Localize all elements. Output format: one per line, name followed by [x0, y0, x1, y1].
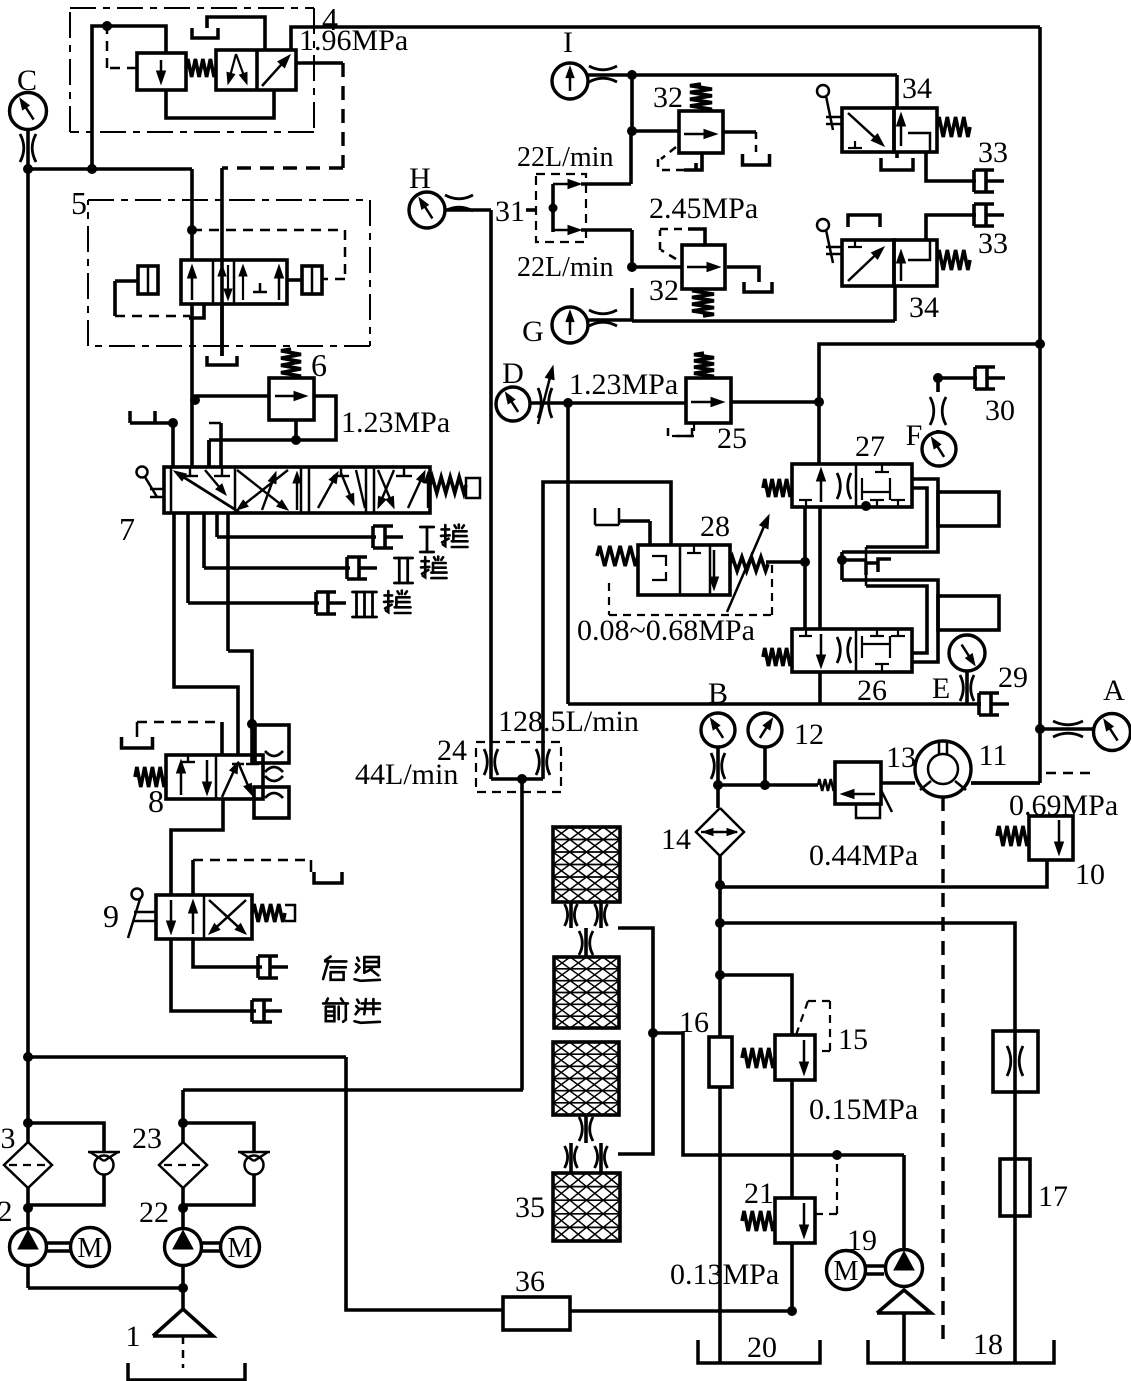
svg-text:26: 26 — [857, 674, 887, 707]
svg-text:15: 15 — [838, 1023, 868, 1056]
svg-text:0.13MPa: 0.13MPa — [670, 1258, 779, 1291]
svg-text:27: 27 — [855, 430, 885, 463]
svg-text:14: 14 — [661, 823, 691, 856]
svg-text:8: 8 — [148, 783, 164, 819]
svg-text:22: 22 — [139, 1196, 169, 1229]
svg-text:28: 28 — [700, 510, 730, 543]
svg-text:128.5L/min: 128.5L/min — [498, 705, 639, 738]
svg-text:0.08~0.68MPa: 0.08~0.68MPa — [577, 614, 755, 647]
svg-text:0.44MPa: 0.44MPa — [809, 839, 918, 872]
svg-text:13: 13 — [886, 741, 916, 774]
svg-text:1: 1 — [126, 1320, 141, 1353]
svg-text:34: 34 — [902, 72, 932, 105]
svg-text:30: 30 — [985, 394, 1015, 427]
svg-text:H: H — [409, 162, 431, 195]
svg-text:34: 34 — [909, 291, 939, 324]
svg-text:22L/min: 22L/min — [517, 252, 613, 283]
svg-text:10: 10 — [1075, 858, 1105, 891]
svg-text:11: 11 — [979, 739, 1008, 772]
svg-text:M: M — [228, 1233, 253, 1264]
svg-text:2.45MPa: 2.45MPa — [649, 192, 758, 225]
svg-text:21: 21 — [744, 1177, 774, 1210]
svg-text:5: 5 — [71, 185, 87, 221]
svg-text:31: 31 — [495, 195, 525, 228]
svg-text:33: 33 — [978, 136, 1008, 169]
svg-text:20: 20 — [747, 1331, 777, 1364]
svg-text:12: 12 — [794, 718, 824, 751]
svg-text:7: 7 — [119, 511, 135, 547]
svg-text:I: I — [563, 26, 573, 59]
svg-text:1.23MPa: 1.23MPa — [341, 406, 450, 439]
svg-text:E: E — [932, 672, 950, 705]
svg-text:G: G — [522, 315, 544, 348]
svg-text:35: 35 — [515, 1191, 545, 1224]
svg-text:32: 32 — [649, 274, 679, 307]
svg-text:9: 9 — [103, 898, 119, 934]
svg-text:M: M — [78, 1233, 103, 1264]
svg-text:16: 16 — [679, 1006, 709, 1039]
svg-text:17: 17 — [1038, 1180, 1068, 1213]
svg-text:22L/min: 22L/min — [517, 142, 613, 173]
svg-text:25: 25 — [717, 422, 747, 455]
svg-text:1.96MPa: 1.96MPa — [299, 24, 408, 57]
svg-text:0.15MPa: 0.15MPa — [809, 1093, 918, 1126]
svg-text:3: 3 — [1, 1122, 16, 1155]
svg-text:A: A — [1103, 674, 1125, 707]
svg-text:B: B — [708, 677, 728, 710]
svg-text:2: 2 — [0, 1195, 13, 1228]
svg-text:18: 18 — [973, 1328, 1003, 1361]
svg-text:1.23MPa: 1.23MPa — [569, 368, 678, 401]
svg-text:M: M — [834, 1256, 859, 1287]
svg-text:36: 36 — [515, 1265, 545, 1298]
svg-text:D: D — [502, 357, 524, 390]
svg-text:29: 29 — [998, 661, 1028, 694]
svg-text:F: F — [906, 419, 923, 452]
svg-text:44L/min: 44L/min — [355, 758, 458, 791]
svg-text:33: 33 — [978, 227, 1008, 260]
svg-text:23: 23 — [132, 1122, 162, 1155]
svg-text:32: 32 — [653, 81, 683, 114]
